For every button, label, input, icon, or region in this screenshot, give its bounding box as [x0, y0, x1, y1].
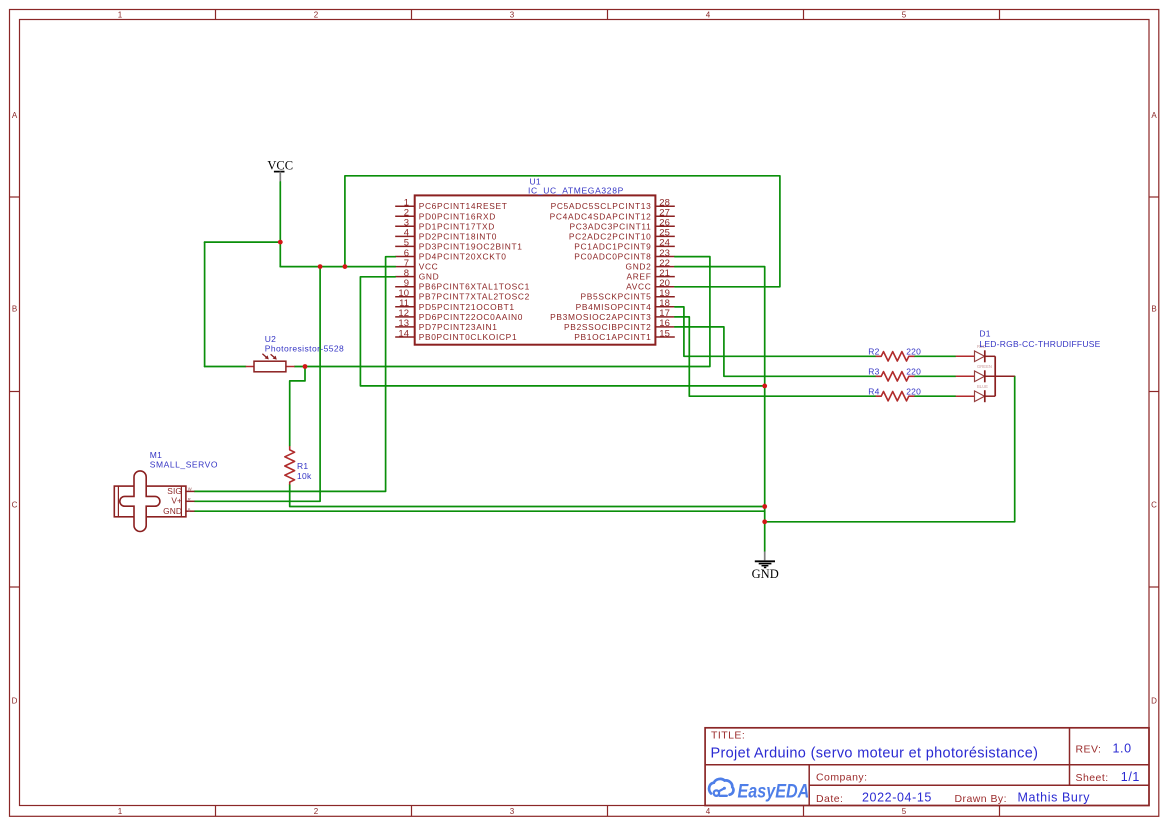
M1 pin GND	[163, 506, 194, 516]
svg-text:EasyEDA: EasyEDA	[738, 780, 810, 802]
U1 pin 26 (PC3ADC3PCINT11)	[570, 218, 675, 232]
svg-text:VCC: VCC	[267, 158, 293, 172]
U1 pin 11 (PD5PCINT21OCOBT1)	[395, 298, 515, 312]
resistor R1 (vertical)	[285, 446, 295, 485]
wire net BLUE: U1 pin 17 to resistor R4	[675, 317, 876, 396]
U1 pin 23 (PC0ADC0PCINT8)	[574, 248, 675, 262]
svg-text:R1: R1	[297, 461, 308, 471]
svg-text:Date:: Date:	[816, 793, 843, 805]
svg-text:5: 5	[902, 10, 907, 19]
svg-text:C: C	[12, 500, 18, 509]
svg-text:R4: R4	[868, 387, 879, 397]
frame row tick right 2	[1149, 391, 1159, 393]
op-amp/IC U1 IC_UC_ATMEGA328P body	[415, 195, 656, 344]
svg-text:IC_UC_ATMEGA328P: IC_UC_ATMEGA328P	[528, 186, 624, 196]
wire VCC net to photoresistor U2 left terminal	[205, 366, 246, 368]
wire wire R3 output to LED D1 green anode	[914, 375, 956, 377]
frame row tick right 1	[1149, 196, 1159, 198]
svg-text:Mathis Bury: Mathis Bury	[1018, 791, 1091, 805]
svg-text:PB1OC1APCINT1: PB1OC1APCINT1	[574, 332, 651, 342]
svg-text:PB3MOSIOC2APCINT3: PB3MOSIOC2APCINT3	[550, 312, 651, 322]
frame column tick bottom 3	[607, 806, 609, 817]
svg-text:SIG: SIG	[167, 486, 182, 496]
svg-text:PD0PCINT16RXD: PD0PCINT16RXD	[419, 211, 496, 221]
U1 pin 27 (PC4ADC4SDAPCINT12)	[550, 208, 675, 222]
svg-text:PD2PCINT18INT0: PD2PCINT18INT0	[419, 231, 497, 241]
frame column tick top 4	[803, 10, 805, 20]
U1 pin 7 (VCC)	[395, 258, 438, 272]
junction AVCC loop on VCC rail	[343, 264, 348, 269]
wire VCC net branch left vertical	[204, 242, 206, 366]
power flag VCC	[267, 158, 293, 182]
svg-text:PC4ADC4SDAPCINT12: PC4ADC4SDAPCINT12	[550, 211, 652, 221]
U1 pin 18 (PB4MISOPCINT4)	[576, 298, 675, 312]
frame column tick top 2	[411, 10, 413, 20]
svg-text:PD5PCINT21OCOBT1: PD5PCINT21OCOBT1	[419, 302, 515, 312]
U1 pin 19 (PB5SCKPCINT5)	[581, 288, 675, 302]
U1 pin 24 (PC1ADC1PCINT9)	[574, 238, 675, 252]
wire net LIGHT: junction to U1 pin 23 (horizontal+vertical+stub)	[305, 257, 710, 367]
U1 pin 5 (PD3PCINT19OC2BINT1)	[395, 238, 522, 252]
svg-text:PB7PCINT7XTAL2TOSC2: PB7PCINT7XTAL2TOSC2	[419, 292, 530, 302]
svg-text:PC3ADC3PCINT11: PC3ADC3PCINT11	[570, 221, 652, 231]
wire net GND: LED D1 common cathode down-left to GND rail	[765, 376, 1015, 522]
U1 pin 13 (PD7PCINT23AIN1)	[395, 318, 497, 332]
svg-text:SMALL_SERVO: SMALL_SERVO	[150, 459, 218, 469]
wire wire R2 output to LED D1 red anode	[914, 355, 956, 357]
wire VCC net branch left horizontal	[205, 241, 281, 243]
svg-text:220: 220	[906, 387, 921, 397]
svg-text:Projet Arduino (servo moteur e: Projet Arduino (servo moteur et photorés…	[711, 746, 1039, 762]
U1 pin 22 (GND2)	[626, 258, 675, 272]
svg-text:C: C	[1151, 500, 1157, 509]
wire net GND: U1 pin 8 GND branch	[360, 277, 764, 386]
svg-text:5: 5	[902, 807, 907, 816]
frame column tick bottom 2	[411, 806, 413, 817]
svg-text:PD6PCINT22OC0AAIN0: PD6PCINT22OC0AAIN0	[419, 312, 523, 322]
U1 pin 17 (PB3MOSIOC2APCINT3)	[550, 308, 675, 322]
svg-text:PC0ADC0PCINT8: PC0ADC0PCINT8	[574, 252, 651, 262]
svg-text:PB2SSOCIBPCINT2: PB2SSOCIBPCINT2	[564, 322, 651, 332]
svg-text:W: W	[188, 486, 192, 491]
junction pin8 GND branch on GND rail	[762, 384, 767, 389]
svg-text:1: 1	[118, 10, 123, 19]
svg-text:B: B	[1151, 304, 1156, 313]
U1 pin 2 (PD0PCINT16RXD)	[395, 208, 496, 222]
svg-text:GND: GND	[752, 567, 779, 581]
U1 pin 4 (PD2PCINT18INT0)	[395, 228, 497, 242]
EasyEDA logo	[709, 779, 809, 802]
U1 pin 28 (PC5ADC5SCLPCINT13)	[551, 198, 675, 212]
svg-text:PB5SCKPCINT5: PB5SCKPCINT5	[581, 292, 652, 302]
svg-text:4: 4	[706, 10, 711, 19]
U1 pin 15 (PB1OC1APCINT1)	[574, 328, 675, 342]
svg-text:AREF: AREF	[626, 272, 651, 282]
title block outline	[705, 728, 1149, 806]
svg-text:1.0: 1.0	[1113, 742, 1132, 756]
U1 pin 10 (PB7PCINT7XTAL2TOSC2)	[395, 288, 530, 302]
svg-text:3: 3	[510, 10, 515, 19]
svg-text:TITLE:: TITLE:	[711, 730, 745, 742]
svg-text:R: R	[188, 497, 191, 502]
LED D1 LED-RGB-CC-THRUDIFFUSE	[956, 344, 1015, 402]
frame column tick top 1	[215, 10, 217, 20]
wire net RED: U1 pin 18 to resistor R2	[675, 307, 876, 356]
wire net VCC: servo V+ pin to VCC rail riser	[195, 267, 321, 502]
svg-text:220: 220	[906, 347, 921, 357]
wire net LIGHT: junction down-jog to R1 top	[290, 367, 305, 447]
frame row tick left 3	[10, 586, 20, 588]
M1 pin V+	[171, 496, 194, 506]
wire net GND: servo GND pin horizontal to GND rail	[195, 510, 765, 512]
wire net SERVO-SIG: servo SIG pin to vertical riser to U1 pin 6	[195, 257, 396, 492]
svg-text:LED-RGB-CC-THRUDIFFUSE: LED-RGB-CC-THRUDIFFUSE	[979, 339, 1100, 349]
U1 pin 12 (PD6PCINT22OC0AAIN0)	[395, 308, 523, 322]
junction servo V+ riser on VCC rail	[318, 264, 323, 269]
wire net GND: U1 pin 22 GND2 to GND symbol vertical rail	[675, 267, 765, 552]
U1 pin 1 (PC6PCINT14RESET)	[395, 198, 507, 212]
U1 pin 25 (PC2ADC2PCINT10)	[569, 228, 675, 242]
svg-text:4: 4	[706, 807, 711, 816]
svg-text:PB4MISOPCINT4: PB4MISOPCINT4	[576, 302, 652, 312]
U1 pin 16 (PB2SSOCIBPCINT2)	[564, 318, 675, 332]
frame row tick left 2	[10, 391, 20, 393]
resistor R3 (horizontal)	[876, 372, 915, 381]
svg-text:2022-04-15: 2022-04-15	[862, 791, 932, 805]
svg-text:A: A	[12, 111, 18, 120]
wire net GREEN: U1 pin 16 to resistor R3	[675, 327, 876, 376]
svg-text:PC2ADC2PCINT10: PC2ADC2PCINT10	[569, 231, 652, 241]
svg-text:10k: 10k	[297, 471, 312, 481]
svg-text:V+: V+	[171, 496, 182, 506]
wire wire R4 output to LED D1 blue anode	[914, 395, 956, 397]
svg-text:PC1ADC1PCINT9: PC1ADC1PCINT9	[574, 241, 651, 251]
svg-text:2: 2	[314, 807, 319, 816]
junction U2 output node	[303, 364, 308, 369]
frame column tick top 3	[607, 10, 609, 20]
U1 pin 20 (AVCC)	[626, 278, 675, 292]
U1 pin 9 (PB6PCINT6XTAL1TOSC1)	[395, 278, 530, 292]
junction VCC flag branch	[278, 240, 283, 245]
svg-text:A: A	[1151, 111, 1157, 120]
frame column tick bottom 5	[999, 806, 1001, 817]
wire VCC net vertical from VCC flag	[279, 182, 281, 267]
svg-text:BLUE: BLUE	[977, 384, 988, 389]
wire net VCC: U1 pin 20 AVCC loop over IC to VCC rail	[345, 176, 780, 287]
svg-text:PD1PCINT17TXD: PD1PCINT17TXD	[419, 221, 495, 231]
svg-text:D1: D1	[979, 329, 990, 339]
junction LED cathode return on GND rail	[762, 519, 767, 524]
svg-text:PD7PCINT23AIN1: PD7PCINT23AIN1	[419, 322, 498, 332]
svg-text:VCC: VCC	[419, 262, 439, 272]
svg-text:PD3PCINT19OC2BINT1: PD3PCINT19OC2BINT1	[419, 241, 523, 251]
junction R1 bottom on GND rail	[762, 504, 767, 509]
svg-text:PB0PCINT0CLKOICP1: PB0PCINT0CLKOICP1	[419, 332, 518, 342]
resistor R4 (horizontal)	[876, 392, 915, 401]
svg-text:AVCC: AVCC	[626, 282, 651, 292]
frame column tick bottom 1	[215, 806, 217, 817]
wire VCC net horizontal to U1 pin 7	[280, 266, 395, 268]
U1 pin 21 (AREF)	[626, 268, 674, 282]
wire net LIGHT: U2 right terminal to junction	[295, 366, 305, 368]
U1 pin 14 (PB0PCINT0CLKOICP1)	[395, 328, 517, 342]
svg-text:Drawn By:: Drawn By:	[955, 793, 1007, 805]
M1 pin SIG	[167, 486, 194, 496]
svg-text:REV:: REV:	[1076, 744, 1102, 756]
frame row tick right 3	[1149, 586, 1159, 588]
svg-text:R3: R3	[868, 367, 879, 377]
resistor R2 (horizontal)	[876, 352, 915, 361]
svg-text:GND2: GND2	[626, 262, 652, 272]
svg-text:Sheet:: Sheet:	[1076, 772, 1109, 784]
svg-text:15: 15	[659, 328, 670, 339]
frame column tick bottom 4	[803, 806, 805, 817]
frame row tick left 1	[10, 196, 20, 198]
photoresistor U2 Photoresistor-5528	[246, 354, 295, 372]
svg-text:PD4PCINT20XCKT0: PD4PCINT20XCKT0	[419, 252, 507, 262]
frame column tick top 5	[999, 10, 1001, 20]
svg-text:PC5ADC5SCLPCINT13: PC5ADC5SCLPCINT13	[551, 201, 652, 211]
svg-text:GREEN: GREEN	[977, 364, 992, 369]
svg-text:B: B	[188, 507, 191, 512]
U1 pin 8 (GND)	[395, 268, 439, 282]
svg-text:1: 1	[118, 807, 123, 816]
svg-text:D: D	[1151, 696, 1157, 705]
wire net GND: R1 bottom to GND rail	[290, 484, 765, 506]
svg-text:220: 220	[906, 367, 921, 377]
svg-text:2: 2	[314, 10, 319, 19]
svg-text:GND: GND	[163, 506, 182, 516]
svg-text:GND: GND	[419, 272, 440, 282]
svg-text:1/1: 1/1	[1121, 770, 1140, 784]
U1 pin 3 (PD1PCINT17TXD)	[395, 218, 495, 232]
motor/servo M1 SMALL_SERVO body	[114, 471, 186, 532]
ground symbol GND	[752, 552, 779, 581]
svg-text:PC6PCINT14RESET: PC6PCINT14RESET	[419, 201, 508, 211]
svg-text:D: D	[12, 696, 18, 705]
svg-text:Company:: Company:	[816, 772, 867, 784]
svg-text:R2: R2	[868, 347, 879, 357]
U1 pin 6 (PD4PCINT20XCKT0)	[395, 248, 506, 262]
svg-text:3: 3	[510, 807, 515, 816]
svg-text:B: B	[12, 304, 17, 313]
svg-text:PB6PCINT6XTAL1TOSC1: PB6PCINT6XTAL1TOSC1	[419, 282, 530, 292]
svg-text:Photoresistor-5528: Photoresistor-5528	[265, 343, 344, 353]
svg-text:14: 14	[398, 328, 409, 339]
